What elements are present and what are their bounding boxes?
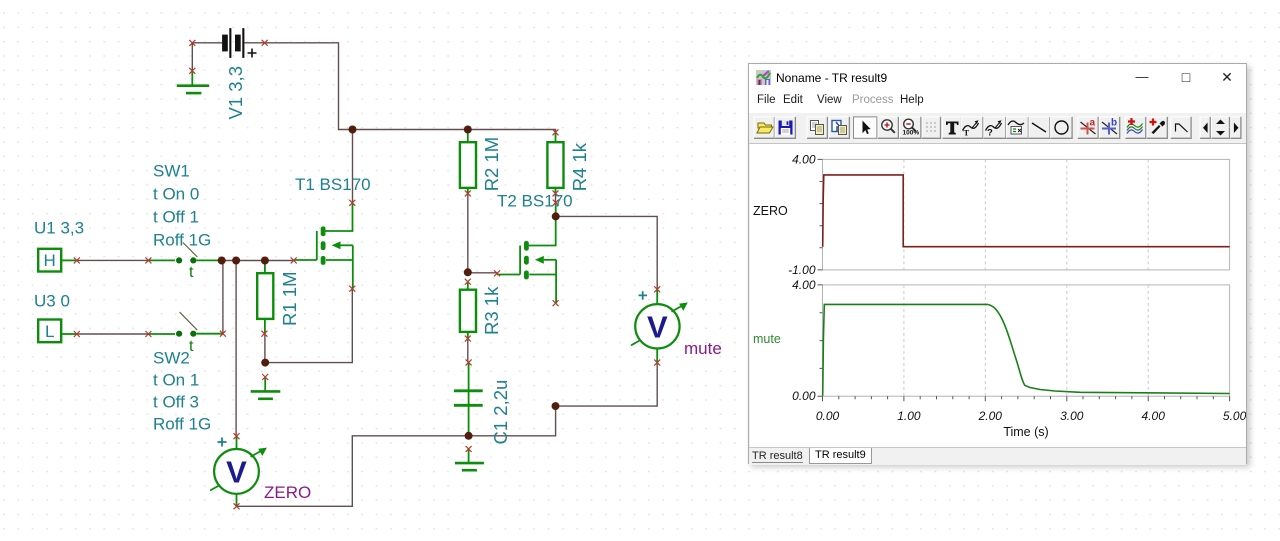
svg-text:L: L [45, 322, 54, 341]
pin cross SW1 in [145, 257, 151, 263]
transistor T2 (BS170) [497, 203, 556, 304]
label U1 3,3 [34, 219, 84, 238]
icon export curves [1127, 118, 1143, 134]
voltmeter mute [631, 289, 688, 362]
icon save [779, 121, 793, 135]
switch SW2 [148, 312, 223, 355]
svg-text:T1 BS170: T1 BS170 [295, 175, 371, 194]
svg-text:100%: 100% [903, 130, 920, 137]
icon spin up-down [1216, 120, 1225, 136]
label SW1 block [153, 162, 211, 250]
svg-text:mute: mute [684, 339, 722, 358]
ground (battery) [177, 71, 209, 93]
label T1 BS170 [295, 175, 371, 194]
wire SW1 output to T1 gate [222, 260, 294, 262]
capacitor C1 [454, 362, 483, 435]
svg-text:Roff 1G: Roff 1G [153, 231, 211, 250]
jumper H (U1) [38, 249, 77, 272]
svg-text:b: b [1111, 118, 1117, 129]
pin cross T1 source [349, 286, 355, 292]
svg-text:C1 2,2u: C1 2,2u [490, 380, 511, 445]
svg-text:R2 1M: R2 1M [481, 137, 502, 192]
junction node C1 bottom [465, 432, 473, 440]
svg-text:0.00: 0.00 [792, 389, 816, 403]
svg-text:ZERO: ZERO [264, 483, 311, 502]
label C1 2,2u [490, 380, 511, 445]
icon linear interpolate [1176, 124, 1188, 132]
transistor T1 (BS170) [294, 203, 353, 289]
pin cross V1 right [262, 40, 268, 46]
svg-text:T: T [964, 128, 970, 138]
icon curve legend [1008, 121, 1024, 134]
wire voltmeter ZERO minus to bottom rail [237, 406, 556, 506]
icon open [757, 123, 773, 133]
svg-text:t Off 1: t Off 1 [153, 208, 199, 227]
label R1 1M [279, 272, 300, 327]
pin cross T2 drain [553, 200, 559, 206]
label R4 1k [569, 142, 590, 191]
svg-text:3.00: 3.00 [1060, 409, 1084, 423]
svg-text:-1.00: -1.00 [788, 263, 816, 277]
svg-text:4.00: 4.00 [792, 278, 816, 292]
icon pick curve [1150, 119, 1166, 135]
jumper L (U3) [38, 320, 77, 343]
label V1 3,3 [225, 66, 246, 120]
svg-text:?: ? [987, 128, 993, 139]
icon grid (disabled) [926, 122, 936, 132]
ground (R1) [251, 377, 281, 399]
wire node D down to voltmeter ZERO [235, 261, 237, 437]
svg-text:R1 1M: R1 1M [279, 272, 300, 327]
svg-text:4.00: 4.00 [792, 152, 816, 166]
svg-text:Time (s): Time (s) [1003, 425, 1048, 439]
label T2 BS170 [497, 192, 573, 211]
voltmeter ZERO [210, 436, 267, 506]
wire L box to SW2 [77, 333, 149, 335]
resistor R2 [460, 130, 476, 194]
pin cross T1 drain [349, 200, 355, 206]
junction node top rail R2 [464, 126, 472, 134]
pin cross voltmeter ZERO plus [234, 433, 240, 439]
svg-text:ZERO: ZERO [753, 204, 788, 218]
wire node B to T2 gate [468, 272, 497, 274]
junction node E (T2 source) [552, 402, 560, 410]
icon copy-special [832, 121, 847, 135]
pin cross R3 bottom [465, 336, 471, 342]
pin cross L out [74, 331, 80, 337]
pin cross R2 bottom [465, 190, 471, 196]
svg-text:R4 1k: R4 1k [569, 142, 590, 191]
wire V1 left lead [192, 42, 222, 44]
icon line tool [1032, 123, 1046, 132]
svg-text:R3 1k: R3 1k [481, 286, 502, 335]
pin cross C1 top [466, 359, 472, 365]
wire SW2 output up to node C [222, 261, 224, 334]
pin cross R4 top [553, 129, 559, 135]
label U3 0 [34, 292, 70, 311]
icon curve cursor a [963, 120, 979, 137]
pin cross V1 left [189, 40, 195, 46]
pin cross SW2 out [220, 331, 226, 337]
wire T2 drain to voltmeter mute plus [556, 216, 658, 289]
icon circle tool [1055, 121, 1068, 134]
pin cross ground C1 [466, 446, 472, 452]
svg-text:1.00: 1.00 [897, 409, 921, 423]
wire R2 bottom to node B [467, 193, 469, 272]
icon b cursor [1102, 118, 1117, 135]
wire R1 bottom to ground node [264, 334, 266, 363]
pin cross SW2 in [145, 331, 151, 337]
label ZERO [264, 483, 311, 502]
svg-text:U3 0: U3 0 [34, 292, 70, 311]
wire R3 bottom to C1 top [467, 339, 469, 363]
svg-text:SW2: SW2 [153, 349, 190, 368]
svg-text:SW1: SW1 [153, 162, 190, 181]
junction node R1 ground [261, 359, 269, 367]
pin cross voltmeter ZERO minus [234, 503, 240, 509]
pin cross H out [74, 257, 80, 263]
svg-text:mute: mute [753, 332, 781, 346]
icon text T [946, 122, 959, 135]
icon cursor [863, 121, 871, 135]
pin cross T2 gate [494, 270, 500, 276]
svg-text:V: V [647, 309, 668, 344]
svg-text:T2 BS170: T2 BS170 [497, 192, 573, 211]
icon zoom 100% [903, 119, 920, 136]
pin cross R4 bottom [553, 190, 559, 196]
svg-text:V1 3,3: V1 3,3 [225, 66, 246, 120]
svg-text:2.00: 2.00 [978, 409, 1003, 423]
pin cross voltmeter mute minus [654, 360, 660, 366]
label SW2 block [153, 349, 211, 434]
wire top rail node A to R4 [353, 130, 556, 133]
svg-text:V: V [226, 455, 247, 490]
wire V1 plus to top rail [244, 43, 352, 130]
icon page left [1203, 123, 1208, 134]
junction node SW1 out [218, 257, 226, 265]
wire H box to SW1 [77, 259, 149, 261]
pin cross ground battery [189, 68, 195, 74]
wire R4 bottom to T2 drain [555, 193, 557, 202]
switch SW1 [148, 243, 221, 282]
wire T1 drain feed [352, 130, 354, 203]
resistor R1 [257, 261, 273, 334]
svg-text:U1 3,3: U1 3,3 [34, 219, 84, 238]
battery V1 [222, 28, 256, 58]
wire voltmeter mute minus to node E [556, 363, 658, 407]
pin cross voltmeter mute plus [654, 286, 660, 292]
junction node R1 top [261, 257, 269, 265]
svg-text:Roff 1G: Roff 1G [153, 415, 211, 434]
pin cross R1 bottom [261, 331, 267, 337]
wire T1 source to ground node [265, 289, 352, 363]
label mute [684, 339, 722, 358]
ground (C1) [455, 449, 484, 470]
junction node voltmeter tap [232, 257, 240, 265]
svg-text:5.00: 5.00 [1223, 409, 1246, 423]
icon copy [811, 121, 824, 135]
svg-text:t: t [189, 264, 194, 281]
label R2 1M [481, 137, 502, 192]
pin cross T2 source [553, 300, 559, 306]
junction node top rail left [349, 126, 357, 134]
svg-text:a: a [1090, 118, 1096, 129]
junction node B (R2/R3/gate) [464, 268, 472, 276]
pin cross R3 top [465, 279, 471, 285]
pin cross T1 gate [291, 257, 297, 263]
svg-text:t On 1: t On 1 [153, 371, 199, 390]
svg-text:t On 0: t On 0 [153, 185, 199, 204]
svg-text:H: H [44, 251, 56, 270]
svg-text:t Off 3: t Off 3 [153, 393, 199, 412]
icon page right [1234, 123, 1239, 134]
svg-text:0.00: 0.00 [816, 409, 840, 423]
pin cross ground R1 [262, 374, 268, 380]
resistor R3 [460, 282, 476, 339]
icon curve cursor b [986, 120, 1002, 138]
wire V1 minus to ground [191, 43, 193, 71]
resistor R4 [547, 132, 563, 193]
icon zoom in [882, 120, 895, 133]
icon a cursor [1081, 118, 1096, 135]
junction node T2 drain [552, 212, 560, 220]
label R3 1k [481, 286, 502, 335]
svg-text:4.00: 4.00 [1142, 409, 1166, 423]
